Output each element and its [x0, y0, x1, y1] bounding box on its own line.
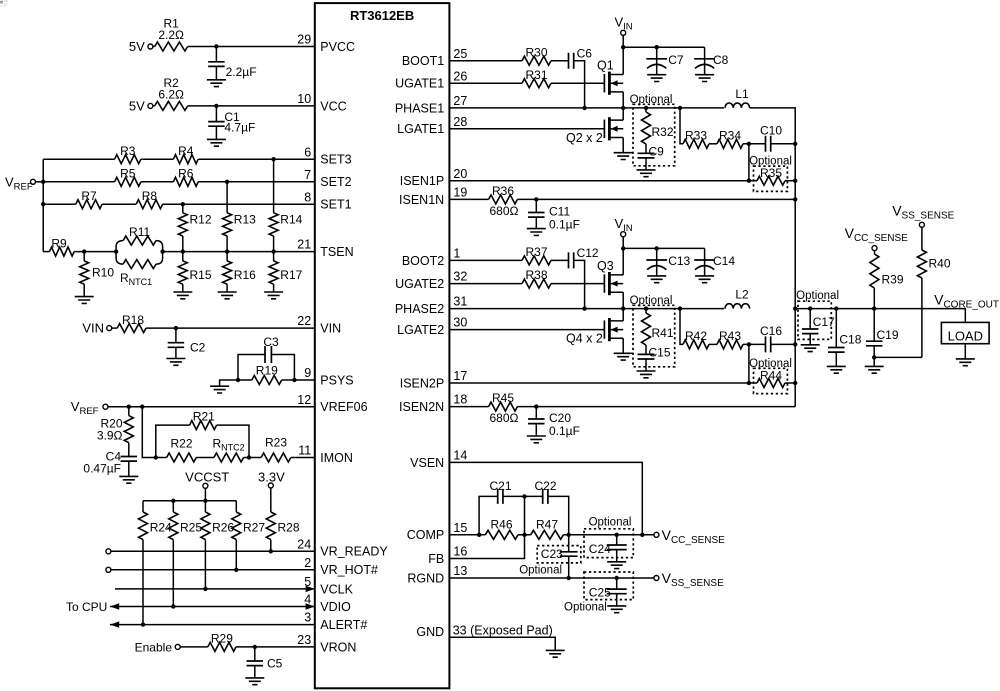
svg-text:R34: R34 — [719, 128, 741, 142]
junction R28/pin24 — [269, 549, 273, 553]
svg-text:2.2Ω: 2.2Ω — [158, 28, 184, 42]
wire VCLK pin 5 — [115, 588, 315, 590]
pin 16 FB — [428, 545, 467, 566]
wire R33-R34 — [709, 143, 717, 145]
capacitor C9 — [638, 144, 665, 170]
svg-text:14: 14 — [453, 449, 467, 463]
svg-text:28: 28 — [453, 115, 467, 129]
wire VIN to R18 — [112, 327, 118, 329]
pin 17 ISEN2P — [400, 369, 468, 390]
svg-text:0.1µF: 0.1µF — [549, 218, 580, 232]
svg-text:ISEN2N: ISEN2N — [399, 400, 444, 414]
svg-text:PHASE1: PHASE1 — [395, 101, 444, 115]
node VIN label phase1 — [615, 15, 633, 33]
svg-text:8: 8 — [304, 190, 311, 204]
svg-text:SET1: SET1 — [320, 198, 351, 212]
inductor L2 — [725, 288, 750, 309]
ground R16 — [218, 292, 237, 299]
svg-text:19: 19 — [453, 186, 467, 200]
svg-text:SET2: SET2 — [320, 175, 351, 189]
capacitor C2 — [168, 328, 206, 358]
wire VDIO pin 4 — [110, 606, 315, 608]
wire 5V to R2 — [153, 105, 155, 107]
wire R34 junction down to ISEN1P — [748, 144, 750, 181]
wire VREF to VREF06 pin 12 — [108, 406, 315, 408]
wire branch to IMON row — [142, 407, 156, 458]
wire C16 to rail — [771, 343, 796, 345]
junction PSYS left — [236, 378, 240, 382]
resistor R37 — [522, 245, 551, 265]
junction rail/VCORE — [793, 306, 797, 310]
svg-text:R41: R41 — [652, 326, 674, 340]
pin 7 SET2 — [304, 168, 351, 189]
svg-text:VSEN: VSEN — [410, 456, 444, 470]
wire LOAD to gnd — [964, 344, 966, 359]
svg-text:C17: C17 — [813, 315, 835, 329]
resistor R16 — [223, 252, 257, 292]
wire LGATE2 pin 30 to Q4 gate — [449, 329, 604, 331]
wire R38 to Q3 gate — [551, 283, 604, 285]
junction phase2/C12 drop — [582, 306, 586, 310]
junction VIN2 rail/C13 — [655, 246, 659, 250]
junction RGND/C25 — [615, 576, 619, 580]
resistor R35 — [749, 166, 795, 185]
pin 22 VIN — [297, 314, 341, 335]
svg-text:IMON: IMON — [320, 451, 353, 465]
pin 28 LGATE1 — [397, 115, 467, 136]
svg-text:TSEN: TSEN — [320, 245, 353, 259]
resistor R23 — [261, 436, 291, 463]
svg-text:C23: C23 — [541, 547, 563, 561]
svg-text:Q4 x 2: Q4 x 2 — [566, 332, 603, 346]
wire C19 bottom to R40 — [874, 356, 922, 358]
svg-text:VCLK: VCLK — [320, 582, 353, 596]
resistor R28 — [266, 512, 300, 551]
wire R47 to VCC_SENSE terminal — [563, 534, 654, 536]
node 5V label — [129, 39, 145, 54]
capacitor C3 — [238, 335, 294, 380]
wire R4 to SET3 pin 6 — [198, 158, 315, 160]
svg-text:Optional: Optional — [519, 564, 562, 576]
capacitor C12 — [569, 246, 599, 268]
wire R23 to IMON pin 11 — [291, 457, 315, 459]
svg-text:PVCC: PVCC — [320, 40, 355, 54]
svg-text:C10: C10 — [760, 123, 782, 137]
svg-text:R17: R17 — [280, 268, 302, 282]
capacitor C11 — [528, 199, 580, 231]
capacitor C19 — [866, 309, 899, 358]
svg-text:LGATE1: LGATE1 — [397, 122, 444, 136]
junction R35/rail — [793, 179, 797, 183]
ground C17 — [801, 345, 820, 352]
svg-text:3.3V: 3.3V — [258, 470, 285, 485]
junction combo right — [160, 249, 164, 253]
svg-text:UGATE2: UGATE2 — [395, 277, 444, 291]
wire L1 to output rail — [750, 108, 796, 407]
terminal VCCST — [203, 483, 208, 488]
resistor R46 — [485, 517, 518, 539]
wire R21 branch — [156, 425, 190, 457]
wire phase1 to R33 — [680, 108, 683, 144]
svg-text:R21: R21 — [193, 409, 215, 423]
svg-text:R9: R9 — [51, 236, 67, 250]
wire R9 to combo — [74, 251, 116, 253]
svg-text:C13: C13 — [668, 254, 690, 268]
junction bus/R25 — [171, 499, 175, 503]
pin 23 VRON — [297, 633, 356, 654]
resistor R19 — [252, 364, 282, 385]
resistor R5 — [115, 167, 141, 187]
junction R24/pin3 — [141, 622, 145, 626]
svg-text:3: 3 — [304, 611, 311, 625]
terminal VSS_SENSE top — [919, 222, 924, 227]
svg-text:C6: C6 — [577, 46, 593, 60]
svg-text:R30: R30 — [525, 45, 547, 59]
transistor Q1 — [597, 47, 623, 108]
svg-text:R33: R33 — [685, 128, 707, 142]
resistor R17 — [269, 252, 303, 292]
ground C8 — [695, 75, 714, 82]
capacitor C7 — [646, 47, 684, 74]
node VREF label 2 — [71, 399, 99, 417]
ground C4 — [119, 476, 138, 483]
capacitor C25 — [589, 578, 627, 606]
svg-text:VRON: VRON — [320, 640, 356, 654]
svg-text:R7: R7 — [81, 189, 97, 203]
wire bus to R9 — [43, 251, 49, 253]
junction R43/C16 — [747, 342, 751, 346]
junction IMON right node — [247, 455, 251, 459]
wire RNTC2 to node — [244, 457, 249, 459]
svg-text:PSYS: PSYS — [320, 373, 353, 387]
wire PSYS gnd stem — [220, 380, 252, 386]
node Enable label — [135, 640, 173, 654]
terminal VSS_SENSE bottom — [654, 576, 659, 581]
pin 29 PVCC — [297, 33, 355, 54]
node 3.3V label — [258, 470, 285, 485]
terminal VREF — [31, 179, 36, 184]
svg-text:L2: L2 — [735, 288, 749, 302]
junction TSEN/R15 — [181, 249, 185, 253]
terminal VR_HOT# — [106, 567, 111, 572]
wire VIN rail phase1 — [623, 46, 704, 48]
junction SET3/R14 — [271, 157, 275, 161]
wire R42-R43 — [709, 343, 717, 345]
resistor R14 — [269, 159, 303, 251]
resistor R42 — [683, 329, 709, 349]
optional box C24 — [584, 516, 633, 557]
svg-text:LGATE2: LGATE2 — [397, 323, 444, 337]
resistor R12 — [178, 204, 212, 251]
svg-text:5V: 5V — [129, 39, 145, 54]
wire node to R22 — [156, 457, 167, 459]
junction VCC/C1 — [214, 104, 218, 108]
wire R29 to VRON pin 23 — [236, 646, 315, 648]
capacitor C13 — [646, 248, 690, 276]
resistor R39 — [870, 251, 904, 309]
resistor R1 — [155, 17, 188, 52]
svg-text:R45: R45 — [492, 391, 514, 405]
svg-text:R39: R39 — [882, 272, 904, 286]
terminal VCC_SENSE top — [872, 246, 877, 251]
svg-text:6.2Ω: 6.2Ω — [158, 87, 184, 101]
resistor R45 — [489, 391, 519, 425]
svg-text:R8: R8 — [142, 189, 158, 203]
svg-text:20: 20 — [453, 167, 467, 181]
wire R34 to C10 — [743, 143, 766, 145]
junction TSEN/R16 — [225, 249, 229, 253]
svg-text:15: 15 — [453, 521, 467, 535]
wire RGND pin 13 — [449, 577, 654, 579]
resistor R36 — [489, 184, 519, 218]
wire VREF vertical bus — [42, 159, 44, 251]
resistor R7 — [76, 189, 102, 209]
node VSS_SENSE label bottom — [662, 570, 724, 589]
ground C9 — [637, 170, 656, 177]
junction VCORE/C18 — [834, 306, 838, 310]
svg-text:R10: R10 — [92, 266, 114, 280]
svg-text:R11: R11 — [129, 225, 150, 239]
junction RGND/C23 — [567, 576, 571, 580]
resistor R27 — [232, 501, 266, 570]
svg-text:VIN: VIN — [320, 322, 341, 336]
wire C21-C22 — [503, 495, 543, 497]
pin 3 ALERT# — [304, 611, 367, 632]
wire 5V to R1 — [153, 46, 155, 48]
capacitor C16 — [760, 324, 782, 352]
svg-text:Q2 x 2: Q2 x 2 — [566, 131, 603, 145]
ground 2.2uF — [207, 80, 226, 87]
svg-text:17: 17 — [453, 369, 467, 383]
svg-text:R40: R40 — [929, 257, 951, 271]
ground C5 — [245, 678, 264, 685]
resistor R2 — [155, 76, 188, 111]
capacitor C14 — [694, 248, 735, 276]
wire R36 to rail — [517, 198, 795, 200]
ground C13 — [647, 276, 666, 283]
svg-text:SET3: SET3 — [320, 153, 351, 167]
svg-text:R25: R25 — [180, 521, 202, 535]
junction VRON/C5 — [253, 645, 257, 649]
capacitor C22 — [534, 479, 556, 504]
ground R15 — [173, 292, 192, 299]
wire R2 to VCC pin 10 — [188, 105, 315, 107]
junction SET1/R12 — [181, 202, 185, 206]
junction combo left — [114, 249, 118, 253]
resistor RNTC2 — [213, 437, 245, 462]
resistor R22 — [167, 437, 197, 462]
svg-text:R27: R27 — [243, 521, 265, 535]
resistor RNTC1 — [120, 260, 156, 287]
resistor R9 — [49, 236, 74, 256]
resistor R30 — [522, 45, 551, 65]
junction phase2/R42 drop — [678, 306, 682, 310]
svg-text:Enable: Enable — [135, 640, 173, 654]
node VREF label — [5, 175, 33, 193]
svg-text:680Ω: 680Ω — [490, 204, 519, 218]
ground C2 — [166, 359, 185, 366]
pin 6 SET3 — [304, 145, 351, 166]
node VCC_SENSE label bottom — [662, 527, 726, 546]
pin 10 VCC — [297, 92, 346, 113]
node VSS_SENSE label top — [892, 203, 954, 222]
resistor R47 — [531, 517, 564, 539]
svg-text:COMP: COMP — [407, 528, 445, 542]
wire VIN rail phase2 — [623, 247, 704, 249]
resistor R25 — [169, 501, 203, 607]
svg-text:ALERT#: ALERT# — [320, 618, 367, 632]
junction C10/rail — [793, 142, 797, 146]
junction ISEN1P/R35 — [747, 179, 751, 183]
svg-text:29: 29 — [297, 33, 311, 47]
pin 33 GND — [416, 623, 552, 638]
wire UGATE1 pin 26 to R31 — [449, 82, 522, 84]
svg-text:C8: C8 — [713, 53, 729, 67]
svg-text:Optional: Optional — [796, 290, 839, 302]
wire R43 junction down to ISEN2P — [748, 344, 750, 383]
ground C25 — [607, 606, 626, 613]
wire VR_HOT# pin 2 — [111, 569, 315, 571]
svg-text:Optional: Optional — [564, 601, 607, 613]
svg-text:26: 26 — [453, 69, 467, 83]
wire C21 branch up — [479, 496, 498, 534]
svg-text:R44: R44 — [760, 368, 782, 382]
pin 9 PSYS — [304, 366, 353, 387]
resistor R33 — [683, 128, 709, 148]
resistor R26 — [201, 501, 235, 589]
svg-text:16: 16 — [453, 545, 467, 559]
junction ISEN2N/C20 — [534, 404, 538, 408]
ground C20 — [527, 436, 546, 443]
wire mid vertical to FB — [449, 496, 524, 558]
wire GND pin 33 — [449, 637, 555, 650]
svg-text:LOAD: LOAD — [948, 329, 983, 344]
junction SET2/R13 — [225, 180, 229, 184]
svg-text:R31: R31 — [525, 68, 547, 82]
svg-text:C22: C22 — [534, 479, 556, 493]
svg-text:9: 9 — [304, 366, 311, 380]
transistor Q2 x 2 — [566, 108, 623, 153]
svg-text:Q3: Q3 — [597, 259, 614, 273]
inductor L1 — [725, 87, 750, 108]
svg-text:R38: R38 — [525, 268, 547, 282]
junction R25/pin4 — [171, 604, 175, 608]
svg-text:R37: R37 — [525, 245, 547, 259]
svg-text:VR_HOT#: VR_HOT# — [320, 563, 378, 577]
svg-text:R22: R22 — [170, 437, 192, 451]
svg-text:VREF06: VREF06 — [320, 400, 367, 414]
svg-text:C3: C3 — [263, 335, 279, 349]
resistor R15 — [178, 252, 212, 292]
node 5V label 2 — [129, 98, 145, 113]
terminal VIN phase1 — [621, 30, 626, 35]
svg-text:680Ω: 680Ω — [490, 411, 519, 425]
wire R5-R6 — [141, 181, 174, 183]
junction R27/pin2 — [234, 568, 238, 572]
svg-text:BOOT2: BOOT2 — [402, 254, 444, 268]
wire SET2 line — [43, 181, 114, 183]
svg-text:32: 32 — [453, 270, 467, 284]
terminal VR_READY — [106, 549, 111, 554]
resistor R40 — [917, 227, 950, 357]
wire C19 bottom to gnd — [873, 357, 875, 366]
junction phase1/R32 — [644, 106, 648, 110]
wire BOOT1 pin 25 to R30 — [449, 60, 522, 62]
junction R34/C10 — [747, 142, 751, 146]
svg-text:27: 27 — [453, 94, 467, 108]
svg-text:C15: C15 — [649, 345, 671, 359]
wire R6 to SET2 pin 7 — [198, 181, 315, 183]
resistor R32 — [642, 108, 674, 153]
resistor R29 — [208, 632, 236, 652]
ground Q4 source — [614, 353, 633, 360]
capacitor C5 — [247, 647, 283, 678]
ground C24 — [607, 562, 626, 569]
load box — [941, 322, 989, 343]
svg-text:Optional: Optional — [589, 516, 632, 528]
resistor R11 parallel RNTC1 frame — [116, 241, 163, 265]
svg-text:UGATE1: UGATE1 — [395, 77, 444, 91]
optional box R32 C9 — [630, 94, 675, 166]
svg-text:RGND: RGND — [407, 571, 444, 585]
svg-text:0.1µF: 0.1µF — [549, 424, 580, 438]
wire R45 to rail — [517, 406, 795, 408]
pin 5 VCLK — [304, 575, 353, 596]
resistor R43 — [717, 329, 743, 349]
wire node to R23 — [249, 457, 261, 459]
svg-text:ISEN1P: ISEN1P — [400, 174, 444, 188]
wire Enable to R29 — [180, 646, 208, 648]
capacitor C8 — [694, 47, 728, 74]
wire VCORE line — [795, 309, 965, 323]
pin 27 PHASE1 — [395, 94, 467, 115]
resistor R10 — [80, 252, 115, 297]
junction COMP/VSEN — [640, 533, 644, 537]
junction ISEN1N/rail — [793, 197, 797, 201]
svg-text:R3: R3 — [120, 144, 136, 158]
pin 31 PHASE2 — [395, 295, 467, 316]
wire C22 to right drop — [548, 496, 569, 534]
svg-text:GND: GND — [416, 625, 444, 639]
svg-text:30: 30 — [453, 316, 467, 330]
wire R8 to SET1 pin 8 — [163, 203, 315, 205]
resistor R13 — [223, 182, 257, 252]
pin 2 VR_HOT# — [304, 556, 378, 577]
wire phase2 to R42 — [680, 309, 683, 345]
resistor R3 — [115, 144, 141, 164]
svg-text:R29: R29 — [211, 632, 233, 646]
wire VCCST bus — [143, 500, 236, 502]
terminal 3.3V — [268, 483, 273, 488]
wire PHASE2 pin 31 to L2 — [449, 308, 724, 310]
optional box C17 — [796, 290, 839, 339]
svg-text:To CPU: To CPU — [66, 600, 107, 614]
pin 13 RGND — [407, 564, 467, 585]
pin 18 ISEN2N — [399, 393, 467, 414]
wire C23 vertical top — [568, 535, 570, 552]
terminal VIN phase2 — [621, 232, 626, 237]
svg-text:C18: C18 — [839, 333, 861, 347]
junction R26/pin5 — [203, 587, 207, 591]
svg-text:Optional: Optional — [630, 295, 673, 307]
IC U1 RT3612EB body — [315, 3, 450, 688]
wire R31 to Q1 gate — [551, 82, 604, 84]
pin 20 ISEN1P — [400, 167, 468, 188]
pin 14 VSEN — [410, 449, 467, 470]
svg-text:12: 12 — [297, 393, 311, 407]
svg-text:VR_READY: VR_READY — [320, 545, 388, 559]
svg-text:10: 10 — [297, 92, 311, 106]
